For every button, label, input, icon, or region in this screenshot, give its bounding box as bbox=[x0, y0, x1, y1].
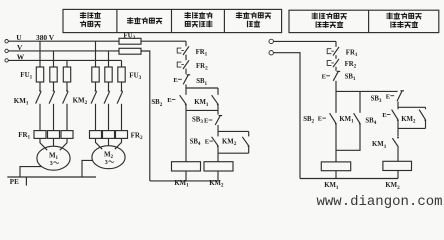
svg-text:FR1: FR1 bbox=[346, 49, 358, 58]
wire node B (middle) bbox=[186, 109, 218, 111]
coil KM1 (middle) bbox=[172, 162, 201, 171]
wire SB3 to node C (right) bbox=[397, 102, 399, 108]
contactor KM2 main contact 1 bbox=[95, 90, 97, 92]
wire drop to fuse (motor1 phase 2) bbox=[53, 51, 55, 67]
svg-text:FR2: FR2 bbox=[131, 131, 143, 141]
wire SB4 to rejoin (middle) bbox=[217, 146, 219, 153]
terminal circle phase W bbox=[5, 59, 8, 62]
svg-text:KM2: KM2 bbox=[385, 182, 400, 191]
wire bottom bus (middle) bbox=[150, 180, 218, 182]
wire SB3 to node C (middle) bbox=[217, 125, 219, 131]
wire SB4 to rejoin (right) bbox=[397, 120, 399, 128]
wire rejoin KM2 branch (right) bbox=[398, 127, 426, 129]
wire KM1 aux rejoin (right) bbox=[336, 124, 360, 151]
wire contact to overload (motor1 phase 1) bbox=[39, 104, 41, 131]
wire to coil KM2 (middle) bbox=[217, 153, 219, 161]
wire phase V bus bbox=[8, 50, 119, 52]
overload relay FR1 heater elements bbox=[34, 131, 46, 139]
wire drop to fuse (motor2 phase 3) bbox=[121, 60, 123, 67]
wire fuse to contactor (motor1 phase 2) bbox=[53, 82, 55, 90]
wire rejoin to KM1 interlock (right) bbox=[397, 128, 399, 136]
fuse FU element (motor1 phase 3) bbox=[63, 67, 70, 82]
svg-text:SB4: SB4 bbox=[190, 139, 201, 148]
pushbutton SB4 start (right) bbox=[397, 119, 399, 121]
svg-text:SB2: SB2 bbox=[151, 99, 162, 108]
terminal circle control feed top bbox=[269, 39, 273, 43]
svg-text:KM2: KM2 bbox=[401, 116, 416, 125]
wire SB2 to coil KM1 (right) bbox=[335, 124, 337, 162]
header divider 3 bbox=[223, 9, 225, 32]
contactor KM1 main contact 3 bbox=[66, 90, 68, 92]
fuse FU element (motor1 phase 1) bbox=[36, 67, 43, 82]
terminal circle phase V bbox=[5, 49, 8, 52]
wire node C (right) bbox=[398, 106, 426, 108]
svg-text:SB1: SB1 bbox=[196, 78, 207, 87]
wire KM2 aux to rejoin (middle) bbox=[248, 146, 250, 153]
svg-text:KM2: KM2 bbox=[73, 97, 88, 107]
svg-text:FR1: FR1 bbox=[18, 131, 30, 141]
overload relay FR2 heater elements bbox=[90, 131, 102, 139]
header table (left group) bbox=[63, 9, 282, 32]
contact KM2 auxiliary NO (right) bbox=[424, 119, 426, 121]
terminal circle control feed bottom bbox=[269, 51, 273, 55]
contact FR2 NC (middle) bbox=[183, 60, 189, 69]
wire coil KM1 to bottom bus (right) bbox=[335, 171, 337, 179]
wire fuse to contactor (motor2 phase 1) bbox=[95, 82, 97, 90]
header text 动机运行 bbox=[185, 21, 190, 26]
svg-text:3: 3 bbox=[105, 160, 108, 166]
svg-text:FR1: FR1 bbox=[196, 49, 208, 58]
pushbutton SB4 start (middle) bbox=[217, 145, 219, 147]
wire node A branch (middle) bbox=[186, 87, 218, 89]
wire M2 frame to PE bbox=[82, 160, 93, 177]
svg-text:FR2: FR2 bbox=[345, 61, 357, 70]
coil KM2 (right) bbox=[383, 161, 412, 170]
wire into motor M1 lead 3 bbox=[60, 138, 67, 150]
header text 主轴电动机(2) bbox=[236, 12, 241, 18]
svg-text:FR2: FR2 bbox=[196, 63, 208, 72]
contact KM1 interlock NO (right) bbox=[397, 137, 399, 139]
pushbutton SB3 stop (middle) bbox=[215, 115, 222, 125]
wire node A to SB2 (middle) bbox=[185, 88, 187, 95]
wire drop to fuse (motor1 phase 1) bbox=[39, 41, 41, 67]
wire rail to FR1 (right) bbox=[335, 41, 337, 46]
svg-text:E: E bbox=[382, 112, 387, 119]
svg-text:SB4: SB4 bbox=[365, 117, 376, 126]
wire interlock to coil KM2 (right) bbox=[397, 147, 399, 162]
svg-text:E: E bbox=[386, 93, 391, 100]
svg-text:M2: M2 bbox=[104, 151, 114, 160]
wire node C to KM2 aux (middle) bbox=[248, 131, 250, 136]
wire into motor M2 lead 3 bbox=[115, 138, 122, 149]
svg-text:PE: PE bbox=[10, 178, 19, 186]
header divider 2 bbox=[171, 9, 173, 32]
wire PE bus bbox=[7, 176, 96, 178]
wire drop to fuse (motor2 phase 2) bbox=[108, 51, 110, 67]
wire control left rail (middle) bbox=[141, 51, 150, 181]
wire fuse to contactor (motor1 phase 3) bbox=[66, 82, 68, 90]
contact KM1 auxiliary NO (middle) bbox=[217, 104, 219, 106]
header text 液压电动机 bbox=[312, 13, 317, 19]
wire phase W bus bbox=[8, 59, 121, 61]
wire drop to fuse (motor2 phase 1) bbox=[95, 41, 97, 67]
wire fuse to contactor (motor1 phase 1) bbox=[39, 82, 41, 90]
header divider 4 bbox=[368, 10, 370, 32]
svg-text:KM1: KM1 bbox=[339, 116, 354, 125]
wire phase U bus bbox=[8, 40, 119, 42]
motor M2 bbox=[92, 146, 125, 169]
wire rejoin KM2 branch (middle) bbox=[218, 152, 249, 154]
header divider 1 bbox=[116, 9, 118, 32]
wire contact to overload (motor2 phase 1) bbox=[95, 104, 97, 131]
header text 运行控制 bbox=[316, 22, 321, 28]
contact KM1 auxiliary NO (right) bbox=[359, 123, 361, 125]
wire coil KM1 to bottom bus (middle) bbox=[185, 171, 187, 181]
svg-text:3: 3 bbox=[50, 161, 53, 167]
wire control top rail (middle) bbox=[141, 40, 186, 42]
wire drop to fuse (motor1 phase 3) bbox=[66, 60, 68, 67]
wire into motor M1 lead 2 bbox=[53, 138, 55, 146]
svg-text:KM1: KM1 bbox=[372, 141, 387, 150]
wire FR1 to FR2 (right) bbox=[335, 55, 337, 59]
wire KM1 aux to node B (middle) bbox=[217, 104, 219, 110]
svg-text:E: E bbox=[322, 73, 327, 80]
wire node A to KM1 aux (right) bbox=[359, 91, 361, 112]
fuse FU element (motor2 phase 2) bbox=[105, 67, 112, 82]
wire fuse to contactor (motor2 phase 2) bbox=[108, 82, 110, 90]
wire into motor M2 lead 2 bbox=[108, 138, 110, 145]
wire node A rail (right) bbox=[336, 90, 398, 92]
svg-text:KM1: KM1 bbox=[14, 97, 29, 107]
contactor KM2 main contact 2 bbox=[108, 90, 110, 92]
svg-text:E: E bbox=[167, 97, 172, 104]
fuse FU element (motor2 phase 1) bbox=[92, 67, 99, 82]
header table (right group) bbox=[289, 10, 439, 32]
coil KM2 (middle) bbox=[204, 162, 233, 171]
wire contact to overload (motor2 phase 2) bbox=[108, 104, 110, 131]
motor M1 bbox=[37, 146, 70, 170]
svg-text:FU3: FU3 bbox=[129, 71, 141, 81]
wire node C to KM2 aux (right) bbox=[425, 107, 427, 109]
svg-text:KM1: KM1 bbox=[324, 182, 339, 191]
contactor KM2 main contact 3 bbox=[121, 90, 123, 92]
header text 电动机 bbox=[80, 21, 85, 27]
contactor KM1 main contact 2 bbox=[53, 90, 55, 92]
svg-text:SB3: SB3 bbox=[371, 96, 382, 105]
svg-text:E: E bbox=[318, 116, 323, 123]
header text 运行控制(2) bbox=[391, 22, 396, 28]
svg-text:KM2: KM2 bbox=[209, 180, 224, 189]
contact FR1 NC (middle) bbox=[183, 46, 189, 55]
pushbutton SB3 stop (right) bbox=[397, 90, 404, 101]
pushbutton SB1 stop (middle) bbox=[183, 74, 190, 84]
fuse FU element (motor2 phase 3) bbox=[118, 67, 125, 82]
pushbutton SB1 stop (right) bbox=[333, 71, 340, 81]
wire bottom bus (right) bbox=[300, 178, 398, 180]
fuse FU2 element b (phase V) bbox=[119, 48, 141, 54]
wire contact to overload (motor2 phase 3) bbox=[121, 104, 123, 131]
svg-text:SB1: SB1 bbox=[345, 73, 356, 82]
wire left rail (right) bbox=[274, 53, 300, 179]
svg-text:E: E bbox=[204, 118, 209, 125]
wire KM2 aux to rejoin (right) bbox=[425, 120, 427, 128]
wire SB2 to node B (middle) bbox=[185, 104, 187, 110]
coil KM1 (right) bbox=[321, 162, 350, 171]
wire into motor M1 lead 1 bbox=[40, 138, 47, 150]
svg-text:SB3: SB3 bbox=[192, 117, 203, 126]
contact FR2 NC (right) bbox=[333, 59, 339, 67]
wire node B to SB3 (middle) bbox=[217, 110, 219, 114]
fuse FU element (motor1 phase 2) bbox=[50, 67, 57, 82]
header text 主轴电动机 bbox=[127, 18, 132, 24]
wire FR1 to FR2 (middle) bbox=[185, 55, 187, 61]
wire contact to overload (motor1 phase 3) bbox=[66, 104, 68, 131]
wire rail to FR1 (middle) bbox=[185, 41, 187, 46]
header text 主轴电动机(3) bbox=[387, 13, 392, 19]
contact KM2 auxiliary NO (middle) bbox=[248, 145, 250, 147]
header text 控制 bbox=[247, 21, 252, 27]
wire PE stub bbox=[25, 177, 27, 186]
wire FR2 to SB1 (right) bbox=[335, 67, 337, 71]
wire coil KM2 to bottom bus (right) bbox=[397, 171, 399, 179]
wire contact to overload (motor1 phase 2) bbox=[53, 104, 55, 131]
wire feed top to main branch (right) bbox=[274, 40, 336, 42]
terminal circle phase U bbox=[5, 40, 8, 43]
wire node B to coil KM1 (middle) bbox=[185, 110, 187, 161]
wire node C (middle) bbox=[218, 130, 249, 132]
svg-text:www.diangon.com: www.diangon.com bbox=[317, 194, 443, 210]
contactor KM1 main contact 1 bbox=[39, 90, 41, 92]
contact FR1 NC (right) bbox=[333, 47, 339, 56]
wire fuse to contactor (motor2 phase 3) bbox=[121, 82, 123, 90]
wire node C to SB4 (right) bbox=[397, 107, 399, 109]
svg-text:E: E bbox=[173, 77, 178, 84]
svg-text:KM2: KM2 bbox=[222, 139, 237, 148]
wire SB1 to node A (middle) bbox=[185, 84, 187, 88]
svg-text:SB2: SB2 bbox=[303, 116, 314, 125]
wire node C to SB4 (middle) bbox=[217, 131, 219, 136]
wire into motor M2 lead 1 bbox=[96, 138, 103, 149]
header text 液压泵 bbox=[80, 12, 85, 18]
fuse FU2 element a (phase U) bbox=[119, 38, 141, 44]
svg-text:E: E bbox=[205, 139, 210, 146]
svg-text:FU1: FU1 bbox=[20, 71, 32, 81]
svg-text:KM1: KM1 bbox=[194, 99, 209, 108]
wire coil KM2 to bottom bus (middle) bbox=[217, 171, 219, 181]
wire FR2 to SB1 (middle) bbox=[185, 69, 187, 75]
svg-text:M1: M1 bbox=[49, 152, 59, 161]
wire node A to SB2 (right) bbox=[335, 91, 337, 112]
wire SB1 to node A (right) bbox=[335, 81, 337, 92]
wire M1 frame to PE bbox=[20, 167, 42, 177]
pushbutton SB2 start (right) bbox=[335, 123, 337, 125]
wire node A to KM1 aux (middle) bbox=[217, 88, 219, 95]
header text 液压泵电 bbox=[185, 12, 190, 18]
pushbutton SB2 start (middle) bbox=[185, 104, 187, 106]
